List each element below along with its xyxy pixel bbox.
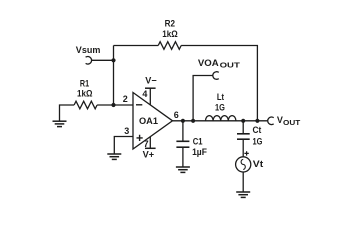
ground (C1)	[176, 167, 190, 172]
svg-text:1G: 1G	[215, 103, 225, 113]
svg-text:2: 2	[123, 94, 128, 104]
svg-text:Lt: Lt	[217, 92, 224, 102]
ground (pin 3)	[107, 154, 121, 159]
svg-text:OA1: OA1	[139, 116, 158, 126]
node C1 junction	[181, 119, 185, 123]
ground (R1 left)	[53, 105, 75, 127]
ground (Vt)	[236, 192, 250, 197]
svg-text:OUT: OUT	[283, 118, 301, 127]
wire Vt to ground	[242, 172, 244, 192]
node VOAOUT junction	[191, 119, 195, 123]
svg-text:7: 7	[144, 139, 149, 149]
resistor R1	[74, 79, 97, 109]
wire VOAOUT riser	[193, 76, 213, 121]
svg-text:1G: 1G	[253, 136, 263, 146]
op-amp pin 7 / V+ supply	[143, 137, 156, 160]
svg-text:1kΩ: 1kΩ	[77, 89, 93, 99]
op-amp OA1	[133, 93, 173, 150]
node Vsum junction	[111, 58, 115, 62]
terminal VOUT	[268, 115, 301, 127]
svg-text:VOA: VOA	[198, 58, 219, 68]
svg-text:C1: C1	[193, 137, 203, 147]
source Vt	[236, 151, 264, 172]
svg-text:Ct: Ct	[253, 125, 262, 135]
node Ct junction	[241, 119, 245, 123]
resistor R2	[158, 19, 181, 50]
svg-text:V−: V−	[145, 75, 156, 85]
svg-text:1µF: 1µF	[192, 147, 207, 157]
svg-text:V: V	[277, 115, 283, 125]
wire top feedback rail right	[181, 46, 257, 121]
node R1 junction	[111, 103, 115, 107]
wire Vsum to junction	[92, 59, 114, 61]
wire top feedback rail left	[114, 45, 159, 47]
terminal Vsum	[76, 45, 101, 64]
svg-text:OUT: OUT	[220, 61, 241, 70]
svg-text:R1: R1	[80, 79, 89, 89]
node feedback junction	[255, 119, 259, 123]
svg-text:4: 4	[142, 89, 147, 99]
wire vertical junction column	[113, 46, 115, 106]
terminal VOAOUT	[198, 58, 240, 80]
capacitor Ct	[237, 121, 262, 157]
svg-text:V+: V+	[143, 149, 155, 159]
wire op-amp pin 3	[114, 137, 133, 155]
svg-text:3: 3	[124, 126, 129, 136]
inductor Lt	[206, 92, 236, 121]
op-amp pin 4 / V- supply	[142, 75, 156, 105]
svg-text:Vt: Vt	[253, 159, 263, 169]
svg-text:Vsum: Vsum	[76, 45, 101, 55]
svg-text:1kΩ: 1kΩ	[162, 29, 178, 39]
svg-text:6: 6	[174, 110, 179, 120]
wire output rail	[173, 120, 268, 122]
svg-text:R2: R2	[165, 19, 175, 29]
wire R1 to op-amp pin 2	[97, 104, 133, 106]
capacitor C1	[176, 121, 207, 167]
